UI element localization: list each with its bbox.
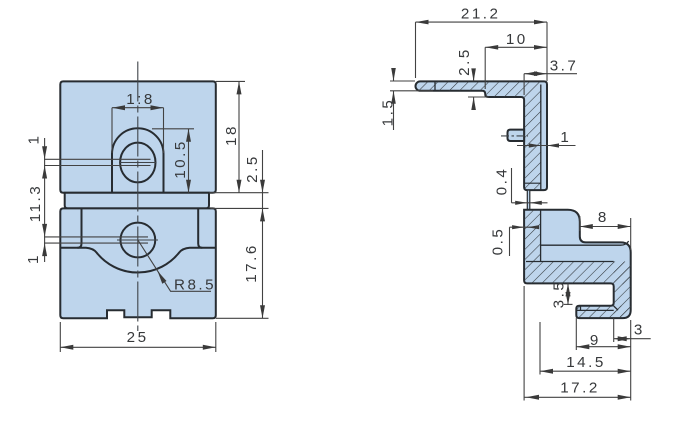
svg-text:18: 18 (223, 124, 240, 146)
svg-text:3: 3 (634, 322, 645, 339)
svg-text:1: 1 (560, 129, 571, 146)
svg-text:2.5: 2.5 (456, 47, 473, 76)
svg-text:3.7: 3.7 (550, 58, 579, 75)
svg-text:14.5: 14.5 (566, 354, 606, 371)
svg-text:1:8: 1:8 (126, 91, 155, 108)
svg-text:3.5: 3.5 (551, 280, 568, 309)
svg-text:17.2: 17.2 (560, 380, 600, 397)
svg-text:10.5: 10.5 (172, 139, 189, 179)
svg-text:2.5: 2.5 (244, 154, 261, 183)
svg-text:11.3: 11.3 (27, 184, 44, 222)
svg-text:0.4: 0.4 (494, 167, 511, 196)
svg-text:1: 1 (25, 253, 42, 264)
svg-text:8: 8 (598, 209, 609, 226)
svg-text:1: 1 (26, 134, 43, 145)
svg-text:9: 9 (590, 332, 601, 349)
svg-text:25: 25 (127, 329, 149, 346)
svg-text:R8.5: R8.5 (174, 277, 216, 294)
svg-text:1.5: 1.5 (380, 98, 397, 127)
svg-text:0.5: 0.5 (490, 227, 507, 256)
svg-text:21.2: 21.2 (461, 6, 501, 23)
svg-text:10: 10 (506, 31, 528, 48)
svg-text:17.6: 17.6 (243, 243, 260, 283)
